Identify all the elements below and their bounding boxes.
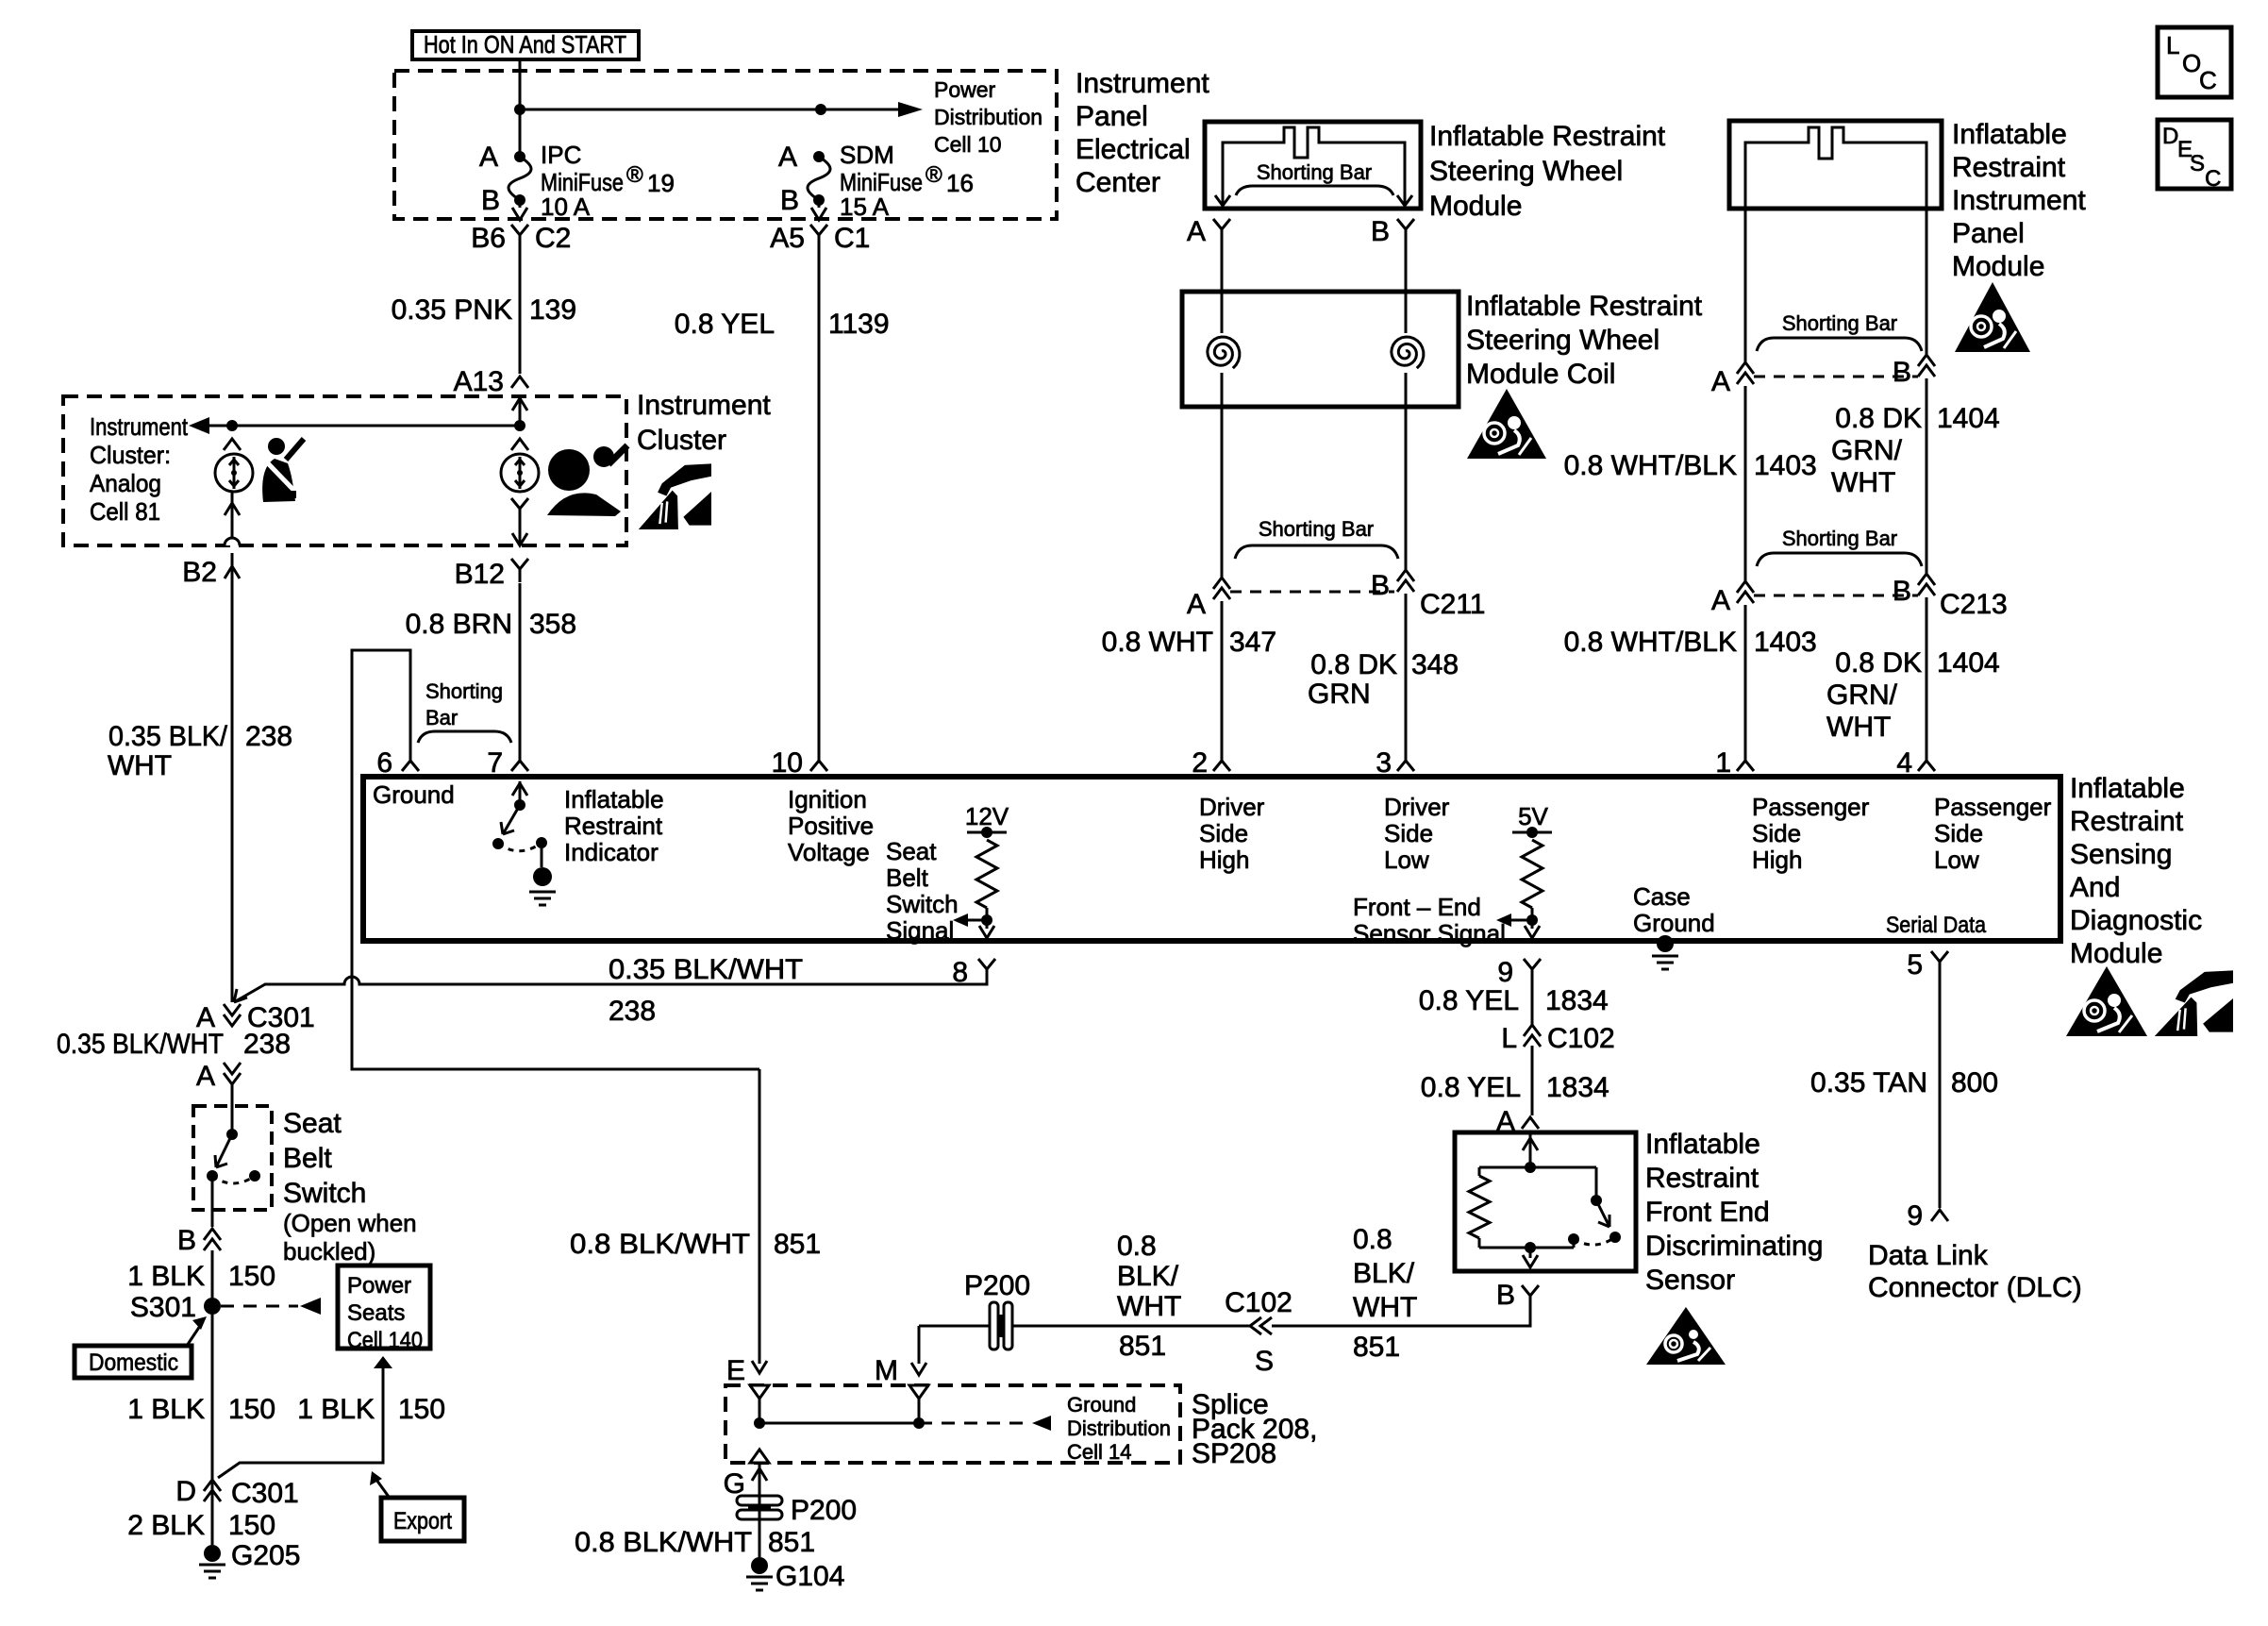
label Front - End Sensor Signal xyxy=(1353,893,1506,947)
svg-text:0.35 TAN: 0.35 TAN xyxy=(1810,1067,1927,1098)
svg-text:SDM: SDM xyxy=(840,141,894,169)
switch contact right xyxy=(536,837,547,848)
label 0.8 YEL xyxy=(675,309,775,340)
pin B label fuse1 xyxy=(481,185,500,216)
label A C211 xyxy=(1187,589,1206,620)
svg-text:Inflatable Restraint: Inflatable Restraint xyxy=(1429,121,1666,152)
svg-text:(Open when: (Open when xyxy=(283,1209,417,1237)
sensor top rail xyxy=(1479,1166,1596,1169)
label 0.35 BLK/WHT (horizontal) xyxy=(609,954,803,985)
svg-text:C213: C213 xyxy=(1940,589,2008,620)
svg-text:238: 238 xyxy=(243,1029,291,1060)
label SDM MiniFuse 16 15 A xyxy=(840,141,974,221)
dashed box Instrument Panel Electrical Center xyxy=(394,71,1057,219)
wire splice to P200 xyxy=(919,1325,989,1328)
label 12V xyxy=(965,802,1009,830)
svg-text:0.8: 0.8 xyxy=(1117,1231,1157,1262)
wire to power distribution arrow xyxy=(821,102,923,117)
svg-text:L: L xyxy=(2166,31,2179,59)
label 1139 xyxy=(828,309,890,340)
svg-text:A: A xyxy=(479,142,498,173)
svg-text:348: 348 xyxy=(1411,649,1459,680)
air bag warning triangle coil xyxy=(1467,389,1546,459)
label box Export xyxy=(381,1498,464,1541)
svg-text:A: A xyxy=(196,1061,215,1092)
svg-text:S301: S301 xyxy=(130,1292,196,1323)
svg-text:Instrument: Instrument xyxy=(637,390,771,421)
label A5 xyxy=(770,223,805,254)
label IPC MiniFuse 19 10 A xyxy=(541,141,675,221)
label pin 7 xyxy=(487,747,503,779)
label C301 lower xyxy=(231,1478,299,1509)
svg-text:Shorting Bar: Shorting Bar xyxy=(1782,311,1897,335)
svg-text:Cell 81: Cell 81 xyxy=(90,497,160,526)
label B steering xyxy=(1371,216,1390,247)
svg-text:C301: C301 xyxy=(231,1478,299,1509)
wire C213 A to pin1 xyxy=(1744,605,1747,750)
label Inflatable Restraint Steering Wheel Module xyxy=(1429,121,1666,222)
junction feed xyxy=(514,104,525,115)
svg-text:150: 150 xyxy=(398,1394,445,1425)
pin A label fuse1 xyxy=(479,142,498,173)
sensor resistor xyxy=(1469,1167,1490,1248)
wire pin9 to L xyxy=(1531,982,1534,1025)
svg-text:C102: C102 xyxy=(1225,1287,1292,1318)
label Case Ground xyxy=(1633,882,1715,937)
svg-text:Switch: Switch xyxy=(886,890,959,918)
svg-text:Analog: Analog xyxy=(90,469,161,497)
box Inflatable Restraint Steering Wheel Module xyxy=(1205,122,1421,209)
wire C102 to sensor B xyxy=(1272,1295,1530,1326)
svg-text:16: 16 xyxy=(946,169,974,197)
svg-text:Ground: Ground xyxy=(1067,1393,1136,1416)
svg-text:10 A: 10 A xyxy=(541,193,591,221)
label pin 5 xyxy=(1907,949,1923,981)
svg-text:1403: 1403 xyxy=(1754,627,1817,658)
connector A13 male chevron xyxy=(511,377,528,388)
box Steering Wheel Module Coil xyxy=(1182,292,1459,407)
bracket shorting bar pins 6-7 xyxy=(418,731,511,743)
label 0.8 DK 1404 GRN/ WHT (upper) xyxy=(1831,403,2000,498)
wire lamp2 exit + arrow xyxy=(512,522,527,545)
svg-text:GRN/: GRN/ xyxy=(1831,435,1903,466)
wire hot feed into fuse A xyxy=(519,59,522,157)
wire E to splice xyxy=(759,1399,761,1423)
svg-text:B: B xyxy=(1893,576,1911,607)
dashed box Splice Pack 208 xyxy=(725,1385,1180,1463)
indicator switch arrow pin7 xyxy=(512,781,527,805)
svg-text:B: B xyxy=(780,185,799,216)
connector C211 B xyxy=(1397,570,1414,592)
wire feed to SDM fuse xyxy=(520,104,826,115)
label A steering xyxy=(1187,216,1206,247)
switch dashed arc xyxy=(498,843,542,851)
svg-text:Voltage: Voltage xyxy=(788,838,870,866)
cluster entry arrow xyxy=(512,398,527,426)
connector P200 inline xyxy=(990,1302,1012,1349)
label B2 xyxy=(182,557,217,588)
svg-text:SP208: SP208 xyxy=(1192,1438,1276,1469)
label 0.8 BLK/WHT 851 (left of C102) xyxy=(1117,1231,1181,1362)
label pin 10 xyxy=(772,747,803,779)
svg-text:D: D xyxy=(175,1476,196,1507)
label pin 4 xyxy=(1896,747,1912,779)
svg-text:Restraint: Restraint xyxy=(564,812,663,840)
connector lamp1 top chevron xyxy=(224,439,241,450)
svg-text:Restraint: Restraint xyxy=(2070,806,2184,837)
indicator lamp air bag xyxy=(501,454,539,492)
label pin 9 xyxy=(1497,957,1513,988)
svg-text:Seat: Seat xyxy=(283,1108,342,1139)
svg-text:0.8 BLK/WHT: 0.8 BLK/WHT xyxy=(570,1229,750,1260)
svg-text:Inflatable: Inflatable xyxy=(564,785,664,813)
svg-text:2 BLK: 2 BLK xyxy=(127,1510,205,1541)
fuse IPC MiniFuse 19 10A xyxy=(509,151,531,206)
splice S301 xyxy=(204,1298,221,1315)
svg-text:0.8 WHT: 0.8 WHT xyxy=(1102,627,1213,658)
internal ground dot xyxy=(533,867,552,886)
switch arm pin7 xyxy=(501,805,520,834)
label G xyxy=(724,1468,745,1500)
wire pin6 ground L-path xyxy=(352,650,759,1069)
box Inflatable Restraint Sensing and Diagnostic Module xyxy=(363,777,2060,941)
connector L C102 xyxy=(1524,1025,1541,1047)
svg-text:GRN: GRN xyxy=(1308,679,1371,710)
svg-text:WHT: WHT xyxy=(1353,1292,1417,1323)
svg-text:0.8 YEL: 0.8 YEL xyxy=(1421,1072,1521,1103)
connector M female xyxy=(909,1385,928,1399)
label 1 BLK (power seats) xyxy=(297,1394,375,1425)
svg-text:1 BLK: 1 BLK xyxy=(297,1394,375,1425)
connector IP B upper xyxy=(1918,355,1935,377)
svg-text:B: B xyxy=(1371,216,1390,247)
svg-text:Indicator: Indicator xyxy=(564,838,659,866)
svg-text:19: 19 xyxy=(647,169,675,197)
label pin 6 xyxy=(376,747,392,779)
case ground bars xyxy=(1652,956,1678,969)
svg-text:851: 851 xyxy=(768,1527,815,1558)
svg-text:C: C xyxy=(2199,66,2217,94)
svg-text:1403: 1403 xyxy=(1754,450,1817,481)
svg-text:Panel: Panel xyxy=(1076,101,1148,132)
label M xyxy=(875,1355,898,1386)
junction 12V resistor bottom xyxy=(981,914,992,926)
front end sensor signal arrow xyxy=(1496,914,1532,927)
svg-text:150: 150 xyxy=(228,1394,275,1425)
svg-text:0.8 DK: 0.8 DK xyxy=(1835,647,1922,679)
connector IP A upper xyxy=(1737,362,1754,384)
label Shorting Bar (IP upper) xyxy=(1782,311,1897,335)
wire 0.35 PNK 139 xyxy=(519,247,522,374)
IP module inner outline xyxy=(1745,127,1926,209)
junction cluster left xyxy=(226,420,238,431)
steering module inner outline xyxy=(1223,127,1405,206)
svg-text:BLK/: BLK/ xyxy=(1117,1261,1179,1292)
connector C102 S xyxy=(1250,1317,1272,1334)
svg-text:C102: C102 xyxy=(1547,1023,1615,1054)
svg-text:M: M xyxy=(875,1355,898,1386)
junction cluster right xyxy=(514,420,525,431)
svg-text:C2: C2 xyxy=(535,223,571,254)
label Inflatable Restraint Instrument Panel Module xyxy=(1952,119,2086,282)
svg-text:15 A: 15 A xyxy=(840,193,890,221)
wire IP B mid xyxy=(1926,378,1928,574)
svg-text:Side: Side xyxy=(1934,819,1983,847)
label Passenger Side High xyxy=(1752,793,1870,874)
svg-text:9: 9 xyxy=(1497,957,1513,988)
svg-text:0.8 BLK/WHT: 0.8 BLK/WHT xyxy=(575,1527,752,1558)
label D xyxy=(175,1476,196,1507)
svg-text:S: S xyxy=(2190,151,2205,176)
svg-text:L: L xyxy=(1501,1023,1517,1054)
connector sensor B female xyxy=(1522,1285,1539,1309)
svg-text:Serial Data: Serial Data xyxy=(1886,913,1987,938)
ESD triangle instrument cluster xyxy=(639,463,711,529)
svg-text:WHT: WHT xyxy=(1826,712,1891,743)
svg-text:Passenger: Passenger xyxy=(1752,793,1870,821)
dashed shorting link C211 xyxy=(1230,591,1394,594)
label A sensor xyxy=(1496,1106,1515,1137)
svg-text:B6: B6 xyxy=(471,223,506,254)
label 238 (B2 wire) xyxy=(245,721,292,752)
connector C2 pin B6 female xyxy=(511,225,528,248)
dashed shorting link IP upper xyxy=(1754,376,1918,378)
svg-text:Power: Power xyxy=(934,77,996,102)
seat belt switch signal arrow xyxy=(953,914,987,927)
sensor entry wire + arrow xyxy=(1523,1132,1538,1167)
svg-text:Positive: Positive xyxy=(788,812,874,840)
label 139 xyxy=(529,294,576,326)
pin 2 connector xyxy=(1213,750,1230,771)
svg-text:Belt: Belt xyxy=(283,1143,332,1174)
wire C211 B to pin3 xyxy=(1405,594,1408,750)
label Power Distribution Cell 10 xyxy=(934,77,1042,157)
label Seat Belt Switch Signal xyxy=(886,837,959,945)
splice junction E xyxy=(754,1417,765,1429)
svg-text:0.8 DK: 0.8 DK xyxy=(1310,649,1397,680)
sensor switch wire xyxy=(1595,1167,1598,1199)
wire ground to E xyxy=(752,1069,767,1373)
svg-text:Seats: Seats xyxy=(347,1300,405,1326)
label Seat Belt Switch xyxy=(283,1108,417,1266)
label 0.8 BLK/WHT 851 (right of C102) xyxy=(1353,1224,1417,1363)
svg-text:S: S xyxy=(1255,1346,1274,1377)
wire IP B upper xyxy=(1926,209,1928,355)
svg-text:Panel: Panel xyxy=(1952,218,2025,249)
pin A label fuse2 xyxy=(778,142,797,173)
dashed wire S301 to power seats xyxy=(221,1298,321,1315)
label 2 BLK xyxy=(127,1510,205,1541)
svg-text:Restraint: Restraint xyxy=(1952,152,2066,183)
svg-text:B: B xyxy=(1496,1280,1515,1311)
svg-text:Inflatable: Inflatable xyxy=(1952,119,2067,150)
dashed box Seat Belt Switch xyxy=(193,1106,272,1210)
sensor contact stub xyxy=(1573,1239,1576,1248)
splice bus wire xyxy=(759,1422,919,1425)
svg-text:buckled): buckled) xyxy=(283,1237,375,1266)
svg-text:Cluster:: Cluster: xyxy=(90,441,171,469)
svg-text:150: 150 xyxy=(228,1510,275,1541)
label 150 (lower left) xyxy=(228,1394,275,1425)
svg-text:Electrical: Electrical xyxy=(1076,134,1191,165)
svg-text:Steering Wheel: Steering Wheel xyxy=(1466,325,1659,356)
svg-text:A: A xyxy=(1711,366,1730,397)
pin 7 connector xyxy=(511,750,528,771)
wire to internal ground xyxy=(541,843,543,867)
label 150 (2 BLK) xyxy=(228,1510,275,1541)
label Passenger Side Low xyxy=(1934,793,2052,874)
LOC box xyxy=(2158,27,2231,97)
svg-text:Discriminating: Discriminating xyxy=(1645,1231,1823,1262)
bracket shorting bar C213 xyxy=(1757,553,1922,566)
svg-text:A5: A5 xyxy=(770,223,805,254)
wire coil A down xyxy=(1221,373,1224,578)
svg-text:Ignition: Ignition xyxy=(788,785,867,813)
sensor junction top xyxy=(1525,1162,1536,1173)
wire M to splice xyxy=(918,1399,921,1423)
svg-text:1: 1 xyxy=(1715,747,1731,779)
label Instrument Cluster: Analog Cell 81 xyxy=(90,412,189,526)
label B6 xyxy=(471,223,506,254)
wire IP A upper xyxy=(1744,209,1747,362)
svg-text:Instrument: Instrument xyxy=(1076,68,1209,99)
svg-text:Module: Module xyxy=(1429,191,1522,222)
label G205 xyxy=(231,1540,300,1571)
label 0.8 DK 1404 GRN/ WHT (lower) xyxy=(1826,647,2000,743)
label Shorting Bar (C213) xyxy=(1782,527,1897,550)
svg-text:Shorting Bar: Shorting Bar xyxy=(1782,527,1897,550)
svg-text:Distribution: Distribution xyxy=(934,105,1042,129)
svg-text:Center: Center xyxy=(1076,167,1160,198)
svg-text:851: 851 xyxy=(1119,1331,1166,1362)
connector DLC pin 9 chevron xyxy=(1931,1210,1948,1221)
label 358 xyxy=(529,609,576,640)
indicator lamp seat belt xyxy=(215,454,253,492)
svg-text:BLK/: BLK/ xyxy=(1353,1258,1415,1289)
svg-text:Front End: Front End xyxy=(1645,1197,1770,1228)
svg-text:C1: C1 xyxy=(834,223,870,254)
wire C213 B to pin4 xyxy=(1926,597,1928,750)
svg-text:B: B xyxy=(481,185,500,216)
label 150 (upper) xyxy=(228,1261,275,1292)
wire A to coil xyxy=(1221,243,1224,333)
svg-text:Ground: Ground xyxy=(1633,909,1715,937)
label B12 xyxy=(455,559,505,590)
arrow Domestic to S301 xyxy=(187,1316,207,1346)
sensor bottom rail xyxy=(1479,1247,1574,1249)
label 0.35 PNK xyxy=(392,294,512,326)
wire to cluster-left arrow xyxy=(189,417,232,434)
pin 9 connector xyxy=(1524,959,1541,982)
svg-text:Side: Side xyxy=(1752,819,1801,847)
svg-text:2: 2 xyxy=(1192,747,1208,779)
wire 0.35 BLK/WHT 238 horizontal xyxy=(234,977,987,1002)
label C102 (L) xyxy=(1547,1023,1615,1054)
switch top contact xyxy=(226,1129,238,1140)
label module Ground xyxy=(373,780,455,809)
svg-text:A: A xyxy=(1711,585,1730,616)
seat belt switch arm xyxy=(215,1134,232,1167)
label P200 (ground) xyxy=(791,1495,857,1526)
label 0.8 YEL (lower) xyxy=(1421,1072,1521,1103)
switch pivot dot pin7 xyxy=(514,799,525,811)
dashed box Instrument Cluster xyxy=(63,396,626,545)
ground G104 xyxy=(746,1557,773,1590)
ground G205 xyxy=(199,1545,225,1578)
label 0.8 WHT/BLK 1403 (lower) xyxy=(1564,627,1817,658)
connector C211 A xyxy=(1213,578,1230,599)
svg-text:238: 238 xyxy=(609,996,656,1027)
svg-text:Sensing: Sensing xyxy=(2070,839,2172,870)
svg-text:G104: G104 xyxy=(775,1561,844,1592)
label A C213 xyxy=(1711,585,1730,616)
label Serial Data xyxy=(1886,913,1987,938)
connector E female xyxy=(750,1385,769,1399)
svg-text:C: C xyxy=(2205,166,2221,192)
wire fuse1 out + arrow xyxy=(512,200,527,220)
label Inflatable Restraint Front End Discriminating Sensor xyxy=(1645,1129,1823,1296)
label A (C301 upper) xyxy=(196,1002,215,1033)
steering module inner arrows xyxy=(1215,195,1412,206)
label pin 1 xyxy=(1715,747,1731,779)
resistor 12V pull-up xyxy=(976,840,997,920)
svg-text:Inflatable Restraint: Inflatable Restraint xyxy=(1466,291,1703,322)
5V supply bar xyxy=(1512,827,1552,838)
svg-text:0.8: 0.8 xyxy=(1353,1224,1392,1255)
sensor switch contact right xyxy=(1609,1232,1621,1243)
wire switch to B xyxy=(211,1176,214,1227)
connector B steering module xyxy=(1397,219,1414,243)
pin 10 connector xyxy=(810,750,827,771)
label 347 xyxy=(1229,627,1276,658)
svg-text:And: And xyxy=(2070,872,2120,903)
label 5V xyxy=(1518,802,1548,830)
bump connector at cluster edge xyxy=(225,538,240,545)
label C213 xyxy=(1940,589,2008,620)
box Power Seats Cell 140 xyxy=(338,1266,430,1353)
svg-text:Inflatable: Inflatable xyxy=(2070,773,2185,804)
wire S301 to G205 xyxy=(211,1315,214,1545)
svg-text:Low: Low xyxy=(1384,846,1429,874)
wire fuse2 out + arrow xyxy=(811,200,826,220)
wire coil B down xyxy=(1405,373,1408,570)
svg-text:4: 4 xyxy=(1896,747,1912,779)
label 0.8 BRN xyxy=(406,609,512,640)
svg-text:Module: Module xyxy=(1952,251,2044,282)
svg-text:12V: 12V xyxy=(965,802,1009,830)
svg-text:Distribution: Distribution xyxy=(1067,1416,1171,1440)
connector lamp2 top chevron xyxy=(511,439,528,450)
svg-text:Instrument: Instrument xyxy=(1952,185,2086,216)
label 238 vertical xyxy=(243,1029,291,1060)
label A13 xyxy=(454,366,504,397)
sensor switch pivot xyxy=(1591,1195,1602,1206)
svg-text:B: B xyxy=(1371,570,1390,601)
label pin 2 xyxy=(1192,747,1208,779)
pin 1 connector xyxy=(1737,750,1754,771)
coil spiral right xyxy=(1392,337,1424,368)
svg-text:B2: B2 xyxy=(182,557,217,588)
label Driver Side High xyxy=(1199,793,1265,874)
wire B to coil xyxy=(1405,243,1408,333)
svg-text:Domestic: Domestic xyxy=(89,1349,178,1376)
label Instrument Panel Electrical Center xyxy=(1076,68,1209,198)
dashed shorting link C213 xyxy=(1754,595,1918,597)
svg-text:Cell 14: Cell 14 xyxy=(1067,1440,1131,1464)
fuse SDM MiniFuse 16 15A xyxy=(808,151,830,206)
svg-text:D: D xyxy=(2162,124,2178,149)
svg-text:Bar: Bar xyxy=(425,706,458,729)
